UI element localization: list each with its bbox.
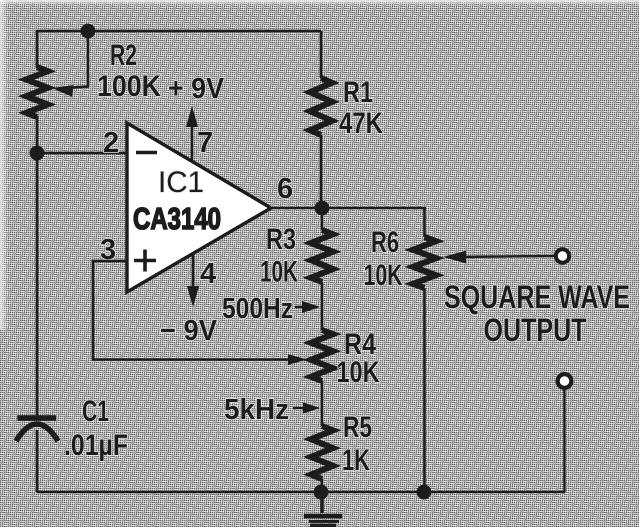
- svg-text:7: 7: [197, 127, 213, 159]
- svg-text:R6: R6: [371, 226, 399, 259]
- svg-text:R1: R1: [343, 76, 373, 109]
- label pin 7: [197, 127, 213, 159]
- pin 4 supply arrow (−9V): [187, 252, 199, 307]
- label C1 value .01µF: [64, 429, 128, 462]
- potentiometer R4 body: [311, 330, 333, 381]
- potentiometer R2 body: [26, 67, 48, 117]
- svg-text:IC1: IC1: [158, 166, 204, 199]
- node inverting-input junction: [30, 146, 45, 161]
- wire R2 wiper to top-rail junction: [72, 31, 88, 88]
- label −9V: [160, 315, 218, 347]
- wire R6 wiper to upper output terminal: [456, 256, 554, 257]
- resistor R3: [311, 208, 333, 330]
- label SQUARE WAVE: [444, 279, 630, 315]
- svg-text:100K: 100K: [97, 70, 161, 103]
- label R6 value 10K: [364, 259, 403, 292]
- svg-text:2: 2: [103, 127, 119, 159]
- label R6: [371, 226, 399, 259]
- pin 7 supply arrow (+9V): [186, 106, 198, 162]
- wire C1 to bottom rail: [36, 430, 39, 492]
- node ground junction: [314, 485, 329, 500]
- svg-text:SQUARE WAVE: SQUARE WAVE: [444, 279, 630, 315]
- label pin 4: [200, 258, 216, 290]
- node R6 bottom junction: [417, 485, 432, 500]
- ground symbol: [304, 492, 342, 526]
- svg-text:.01µF: .01µF: [64, 429, 128, 462]
- wire pin 2 (junction to op-amp): [37, 152, 128, 155]
- svg-text:6: 6: [277, 173, 293, 205]
- label 47K: [339, 107, 383, 140]
- svg-text:+ 9V: + 9V: [168, 73, 225, 105]
- potentiometer R6 body: [413, 208, 436, 492]
- potentiometer R6 wiper arrow: [443, 251, 466, 263]
- wire R4 to R5: [321, 381, 324, 426]
- node output junction: [315, 201, 330, 216]
- svg-text:R3: R3: [266, 223, 296, 256]
- svg-text:R2: R2: [110, 39, 137, 72]
- svg-text:R5: R5: [343, 411, 372, 444]
- svg-text:CA3140: CA3140: [133, 201, 221, 236]
- svg-text:− 9V: − 9V: [160, 315, 218, 347]
- svg-text:10K: 10K: [260, 256, 298, 289]
- label +9V: [168, 73, 225, 105]
- op-amp inverting (−) input mark: [136, 151, 157, 155]
- label IC1: [158, 166, 204, 199]
- wire left rail upper (top rail to R2): [36, 30, 39, 68]
- wire pin 3 to R4 wiper: [93, 261, 290, 360]
- op-amp IC1 triangle: [127, 123, 271, 292]
- label R2 value 100K: [97, 70, 161, 103]
- label R5 value 1K: [342, 444, 370, 477]
- svg-text:10K: 10K: [364, 259, 403, 292]
- op-amp non-inverting (+) input mark: [134, 250, 156, 272]
- wire top rail (R2 top / wiper to R1): [37, 30, 321, 33]
- potentiometer R4 wiper arrow: [288, 354, 307, 365]
- svg-text:4: 4: [200, 258, 216, 290]
- potentiometer R2 wiper arrow: [52, 85, 74, 97]
- output terminal lower: [558, 374, 572, 388]
- label R3 value 10K: [260, 256, 298, 289]
- svg-text:C1: C1: [82, 395, 109, 428]
- wire lower output terminal to bottom rail: [563, 390, 565, 492]
- annotation 500Hz: [222, 293, 320, 325]
- resistor R5: [311, 426, 333, 492]
- capacitor C1: [16, 418, 58, 441]
- wire bottom rail: [37, 491, 565, 494]
- label pin 2: [103, 127, 119, 159]
- svg-text:47K: 47K: [339, 107, 383, 140]
- label R4: [344, 328, 376, 361]
- svg-text:5kHz: 5kHz: [224, 394, 289, 426]
- wire op-amp output (pin 6 to R6 top): [271, 207, 426, 210]
- label C1: [82, 395, 109, 428]
- label pin 6: [277, 173, 293, 205]
- svg-text:OUTPUT: OUTPUT: [484, 312, 587, 348]
- label R4 value 10K: [337, 356, 380, 389]
- svg-text:500Hz: 500Hz: [222, 293, 293, 325]
- label R2: [110, 39, 137, 72]
- resistor R1: [310, 31, 332, 209]
- svg-text:1K: 1K: [342, 444, 370, 477]
- label OUTPUT: [484, 312, 587, 348]
- label R5: [343, 411, 372, 444]
- label CA3140: [133, 201, 221, 236]
- svg-text:10K: 10K: [337, 356, 380, 389]
- label R1: [343, 76, 373, 109]
- annotation 5kHz: [224, 394, 320, 426]
- label pin 3: [100, 234, 116, 266]
- output terminal upper: [556, 249, 569, 262]
- node R2 wiper junction: [81, 24, 96, 39]
- wire left rail middle (R2 to C1): [36, 116, 39, 417]
- label R3: [266, 223, 296, 256]
